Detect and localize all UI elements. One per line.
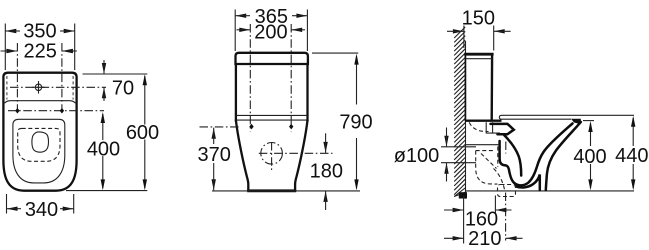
- dim 340 extension right: [73, 194, 75, 214]
- svg-text:70: 70: [112, 77, 134, 99]
- dim 400 plan label: [86, 141, 120, 155]
- front floor line: [212, 190, 360, 192]
- dim 365 arrows: [235, 14, 246, 18]
- plan view outline: [3, 73, 76, 191]
- dim 200 arrows: [239, 28, 250, 32]
- svg-text:ø100: ø100: [394, 145, 440, 167]
- side seat front tip: [571, 119, 581, 125]
- svg-text:210: 210: [468, 228, 501, 250]
- front fixing hole left: [249, 124, 253, 130]
- front outlet circle: [261, 143, 283, 165]
- front top extension line: [312, 52, 358, 54]
- plan centerline horizontal: [10, 86, 106, 88]
- plan centerline vertical left: [16, 43, 18, 114]
- dim 225 arrows: [6, 49, 17, 53]
- side seat bottom line: [499, 115, 571, 119]
- front pedestal right side: [295, 120, 307, 190]
- dim 150 extension left: [463, 26, 465, 49]
- dim 160 arrows: [453, 208, 464, 212]
- front tank bottom centerline: [200, 126, 241, 128]
- dim diameter100 arrows: [444, 136, 448, 147]
- plan water area hidden: [18, 128, 60, 161]
- side hidden trap outline: [476, 147, 505, 190]
- dim 400 side line: [590, 123, 592, 146]
- svg-text:370: 370: [198, 144, 231, 166]
- svg-text:400: 400: [573, 146, 606, 168]
- plan cistern front edge: [5, 101, 76, 104]
- plan centerline vertical right: [61, 43, 63, 114]
- side cistern: [464, 53, 493, 56]
- dim 440 side label: [614, 147, 649, 162]
- front centerline vertical right: [290, 24, 292, 132]
- front outlet centerline horizontal: [259, 152, 333, 154]
- svg-text:350: 350: [23, 21, 56, 43]
- front seat line upper: [237, 114, 308, 116]
- dim 370 line: [212, 128, 216, 139]
- side wall extension line: [463, 196, 465, 244]
- plan fixing holes centerline: [8, 110, 104, 112]
- svg-text:200: 200: [254, 21, 287, 43]
- svg-text:225: 225: [24, 41, 57, 63]
- dim 400 plan line: [102, 114, 104, 140]
- front seat line lower: [237, 119, 308, 121]
- dim 340 arrows: [7, 207, 18, 211]
- side hidden floor outlet: [498, 185, 516, 197]
- dim 365 extension left: [234, 10, 236, 52]
- wall base block: [459, 192, 467, 198]
- side bowl back hidden: [469, 122, 488, 131]
- plan seat outline: [13, 119, 65, 183]
- dim 180 arrows: [323, 142, 327, 153]
- dim 365 extension right: [306, 10, 308, 52]
- plan trap opening: [32, 132, 49, 152]
- side hidden drain pipe: [441, 147, 476, 163]
- side rim section: [491, 124, 514, 134]
- plan bottom extension line: [66, 190, 147, 192]
- svg-text:180: 180: [310, 160, 343, 182]
- side seat top line: [502, 114, 634, 116]
- svg-text:340: 340: [25, 199, 58, 221]
- dim 790 line: [356, 56, 358, 105]
- dim 340 extension left: [6, 194, 8, 214]
- side rim extension line: [583, 120, 594, 122]
- front cistern lid: [236, 53, 308, 64]
- dim 70 arrows: [102, 63, 106, 74]
- side outlet centerline: [505, 193, 507, 241]
- side flush line: [466, 144, 500, 146]
- svg-text:600: 600: [126, 122, 159, 144]
- front pedestal left side: [236, 120, 248, 190]
- svg-text:790: 790: [339, 112, 372, 134]
- dim 150 extension right: [493, 26, 495, 51]
- side cistern lid seam: [465, 58, 492, 60]
- dim 440 side line: [632, 118, 634, 146]
- plan inlet cross mark: [32, 81, 45, 94]
- dim 350 extension left: [4, 24, 6, 71]
- front outlet centerline vertical: [271, 142, 273, 172]
- plan lid seam hidden right: [72, 76, 74, 100]
- side bowl interior surface: [504, 135, 521, 175]
- plan top extension line: [83, 73, 148, 75]
- plan fixing hole left: [15, 108, 19, 114]
- side trap underside and foot: [516, 175, 540, 191]
- dim 350 arrows: [5, 29, 16, 33]
- side floor line: [466, 190, 635, 192]
- side bowl front outer: [546, 122, 581, 190]
- front pedestal base: [247, 189, 296, 192]
- plan fixing hole right: [60, 108, 64, 114]
- dim 600 line: [144, 76, 146, 125]
- dim 150 arrows: [453, 29, 464, 33]
- side outlet extension line: [494, 196, 496, 214]
- svg-text:150: 150: [462, 8, 495, 30]
- side flush connector: [486, 122, 500, 133]
- side cistern bottom: [465, 119, 502, 121]
- front centerline vertical left: [249, 24, 251, 132]
- svg-text:400: 400: [87, 138, 120, 160]
- plan lid seam hidden left: [6, 76, 8, 100]
- svg-text:440: 440: [615, 145, 648, 167]
- dim 210 arrows: [453, 236, 464, 240]
- front fixing hole right: [289, 124, 293, 130]
- wall hatching: [454, 27, 465, 197]
- dim 350 extension right: [74, 24, 76, 71]
- front tank sides: [235, 64, 237, 121]
- wall face line: [465, 41, 467, 199]
- side trap weir and sump: [500, 124, 573, 186]
